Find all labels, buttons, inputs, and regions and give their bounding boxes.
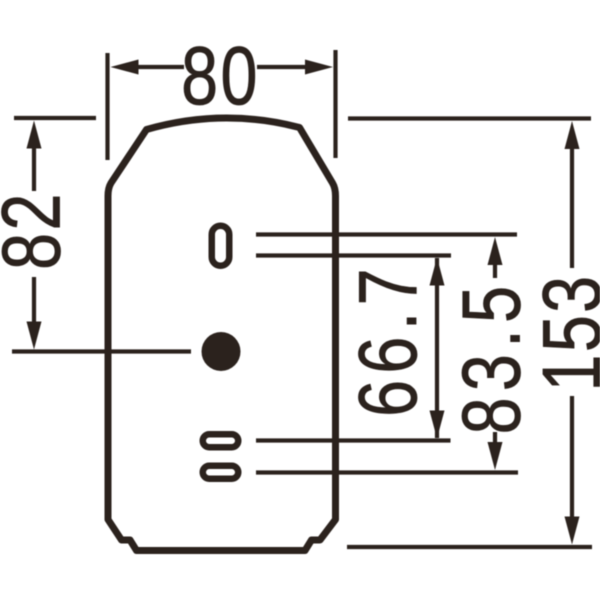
dimension line 82 upper segment <box>32 145 36 191</box>
arrowhead 66.7 top <box>430 258 445 286</box>
arrowhead 83.5 top <box>488 237 503 265</box>
arrowhead 83.5 bottom <box>488 442 503 470</box>
extension line 80 left <box>105 53 109 160</box>
dimension line 66.7 <box>435 258 439 438</box>
arrowhead 153 bottom <box>565 517 580 545</box>
extension line 153 bottom <box>347 545 592 549</box>
svg-text:83.5: 83.5 <box>445 280 538 435</box>
extension line 83.5 top (slot S1 upper center) <box>256 232 517 236</box>
extension line 66.7 bottom (slot S2 center) <box>256 438 451 442</box>
arrowhead 66.7 bottom <box>430 411 445 439</box>
svg-text:80: 80 <box>181 29 260 122</box>
svg-text:153: 153 <box>525 274 600 392</box>
center hole <box>202 332 241 371</box>
mounting slot S1 (top vertical slot) <box>212 226 230 266</box>
mounting slot S2 (lower horizontal slot) <box>203 434 239 447</box>
dimension line 83.5 upper segment <box>493 262 497 278</box>
body outline <box>108 118 336 551</box>
center line through hole <box>12 349 191 353</box>
extension line 80 right <box>333 50 337 158</box>
extension line 153 top <box>348 116 591 120</box>
arrowhead 153 top <box>565 121 580 149</box>
arrowhead 80 right <box>305 60 333 75</box>
dimension line 82 lower segment <box>32 277 36 324</box>
extension line 83.5 bottom (slot S3 center) <box>256 470 518 474</box>
dimension line 80 right segment <box>257 65 307 69</box>
arrowhead 82 top <box>27 121 42 149</box>
arrowhead 80 left <box>111 60 139 75</box>
dimension line 153 lower segment <box>570 396 574 518</box>
svg-text:66.7: 66.7 <box>341 262 434 417</box>
svg-text:82: 82 <box>0 191 77 270</box>
dimension line 153 upper segment <box>570 146 574 268</box>
arrowhead 82 bottom <box>27 322 42 350</box>
extension line 82 top <box>14 116 96 120</box>
dimension line 83.5 lower segment <box>493 432 497 445</box>
mounting slot S3 (bottom horizontal slot) <box>203 466 239 479</box>
extension line 66.7 top (slot S1 lower center) <box>256 253 451 257</box>
dimension line 80 left segment <box>135 65 184 69</box>
